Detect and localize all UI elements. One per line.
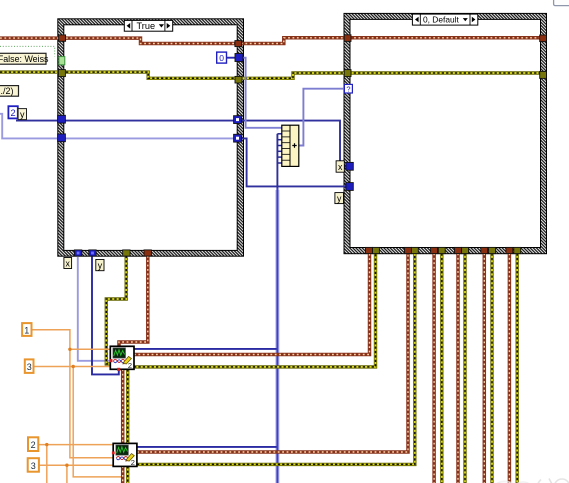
CS2 bottom tunnel pair 6	[506, 247, 513, 253]
chain wires icon1 to icon2 brown	[121, 369, 125, 443]
case structure CS2 (0, Default case) border	[344, 13, 547, 253]
tunnel brown CS2 right	[540, 35, 547, 42]
tunnel blue x CS1 bottom	[74, 250, 81, 256]
svg-text:2: 2	[131, 458, 135, 467]
case structure CS1 (True case) border	[58, 19, 244, 256]
tunnel brown CS1 right	[235, 41, 242, 47]
icon2 brown output wire	[137, 254, 408, 453]
tunnel olive CS1 right	[235, 76, 242, 83]
svg-text:0, Default: 0, Default	[423, 15, 460, 25]
tunnel blue y CS1 left	[58, 134, 66, 142]
tunnel olive CS2 right	[540, 71, 547, 78]
constant 0	[217, 52, 227, 63]
tunnel blue y CS1 bottom	[89, 250, 96, 256]
tunnel blue x CS2 left	[346, 162, 353, 170]
svg-text:?: ?	[346, 84, 350, 93]
long vertical blue wire	[276, 134, 278, 483]
green dotted label connector	[0, 46, 55, 56]
wire olive below CS1 to icon1	[106, 256, 126, 364]
tunnel blue y CS1 right	[234, 134, 242, 142]
red dot icon1 bottom	[117, 368, 120, 371]
svg-text:3: 3	[31, 461, 36, 471]
constant 2 blue	[8, 106, 17, 118]
svg-text:False: Weiss: False: Weiss	[0, 54, 49, 64]
tunnel blue 0 CS1 right	[235, 54, 243, 62]
wire Y lavender left part	[0, 114, 241, 139]
junction dot 3b	[65, 464, 68, 467]
CS2 bottom tunnel pair 5	[481, 247, 488, 253]
tunnel blue y CS2 left	[346, 183, 353, 191]
constant 1 orange	[22, 323, 31, 336]
tunnel brown CS1 bottom	[144, 250, 151, 256]
svg-text:x: x	[338, 162, 343, 172]
svg-text:2: 2	[11, 108, 16, 118]
svg-text:2: 2	[128, 361, 132, 370]
svg-text:y: y	[337, 193, 342, 203]
wire W1 brown cluster wire top	[0, 38, 543, 44]
tunnel blue x CS1 right	[234, 116, 242, 124]
tunnel olive CS1 left	[58, 70, 65, 77]
CS2 case label 0, Default	[412, 14, 477, 25]
junction dot 3a	[72, 365, 75, 368]
chain wires icon2 down olive	[126, 466, 129, 483]
label y below CS1	[96, 260, 104, 271]
tunnel olive CS2 left	[344, 70, 351, 77]
wire W2 olive array wire	[0, 72, 543, 78]
chain wires icon2 down brown	[121, 466, 125, 483]
chain wires icon1 to icon2 olive	[126, 369, 129, 443]
icon2 blue output wire	[137, 446, 277, 448]
icon1 olive output wire to tunnel pair1	[134, 254, 376, 367]
wire orange from constant 3b	[39, 464, 113, 466]
svg-text:1: 1	[24, 325, 29, 335]
svg-text:./2): ./2)	[1, 86, 14, 96]
CS1 case label True	[124, 20, 172, 31]
svg-text:2: 2	[31, 440, 36, 450]
red dot icon2 left	[112, 452, 115, 455]
wire x-out below CS1 lavender	[78, 256, 111, 361]
icon U2 express VI instance 2	[113, 443, 137, 467]
icon1 blue output wire	[134, 348, 277, 350]
wire adder output to selector ?	[298, 89, 344, 146]
adder input stub wires	[277, 134, 281, 163]
label x below CS1	[64, 258, 72, 269]
label /2) partial	[0, 86, 19, 97]
svg-text:3: 3	[27, 362, 32, 372]
tunnel brown CS2 left	[344, 35, 351, 42]
CS2 bottom tunnel pair 1	[366, 247, 373, 253]
selector tunnel ? CS2	[344, 84, 352, 93]
svg-text:y: y	[98, 260, 103, 270]
wire orange from constant 2	[38, 444, 113, 446]
tunnel green boolean CS1 left	[59, 57, 65, 65]
constant 3a orange	[25, 359, 34, 373]
junction dot 2	[45, 443, 48, 446]
icon2 olive output wire	[137, 254, 415, 465]
wire X blue int	[16, 121, 347, 167]
wire orange from constant 1	[32, 330, 114, 458]
constant 3b orange	[28, 458, 39, 472]
constant 2 orange	[28, 437, 38, 451]
wire brown below CS1 to icon1 top	[119, 256, 148, 347]
svg-text:0: 0	[219, 53, 224, 63]
label y at CS2	[335, 193, 344, 204]
label x at CS2	[336, 161, 344, 172]
icon U1 express VI instance 1	[110, 346, 134, 370]
tunnel olive CS1 bottom	[123, 250, 130, 256]
label False: Weiss	[0, 53, 49, 64]
icon1 brown output wire to tunnel pair1	[134, 254, 370, 355]
CS2 bottom tunnel pair 2	[405, 247, 412, 253]
svg-text:y: y	[20, 109, 25, 119]
CS2 bottom tunnel pair 4	[455, 247, 462, 253]
wire y-out below CS1 blue	[92, 256, 119, 375]
wire orange from constant 3a	[34, 366, 111, 368]
CS2 bottom tunnel pair 3	[431, 247, 438, 253]
svg-text:x: x	[65, 258, 70, 268]
faint watermark bottom right	[496, 479, 569, 483]
tunnel blue x CS1 left	[58, 115, 66, 123]
svg-text:True: True	[137, 21, 156, 31]
tunnel brown CS1 left	[59, 35, 66, 41]
CS2 bottom tunnel vertical wires olive	[442, 254, 517, 483]
wire from 0 constant to adder	[227, 57, 237, 59]
label y beside constant 2	[18, 109, 26, 120]
compound arithmetic add node	[282, 125, 299, 166]
wire Y dark right part	[241, 138, 349, 186]
red dot icon1 left	[109, 359, 112, 362]
junction dot 1	[68, 348, 71, 351]
CS2 bottom tunnel vertical wires brown	[434, 254, 509, 483]
tooltip sliver top right	[554, 0, 569, 6]
